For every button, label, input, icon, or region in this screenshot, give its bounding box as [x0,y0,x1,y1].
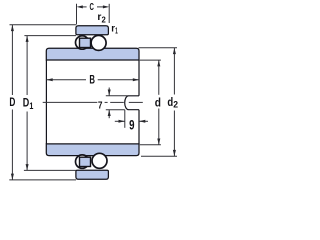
outer ring bottom section [76,170,109,179]
svg-text:7: 7 [98,100,103,112]
svg-text:d: d [155,96,161,110]
dimension B [47,79,140,81]
svg-text:C: C [90,1,95,13]
dimension d [140,60,161,145]
ball bottom-left [76,155,89,168]
svg-text:D: D [23,95,30,109]
slot in end face [125,96,139,110]
center axis line [43,101,143,103]
ball top-right [91,35,106,50]
dimension C [77,4,110,25]
dimension 7 (slot) [106,88,129,119]
svg-text:B: B [89,75,95,87]
ball top-left [76,36,89,49]
outer ring top section [76,26,109,35]
dimension D [9,25,76,180]
cage top [80,38,91,47]
svg-text:1: 1 [115,26,118,36]
svg-text:1: 1 [29,101,33,111]
cage bottom [80,157,91,166]
ball bottom-right [92,153,107,168]
svg-text:D: D [9,95,15,109]
dimension D1 [24,36,76,171]
dimension 9 (slot depth) [115,110,148,128]
svg-text:2: 2 [173,99,178,109]
right end face line upper [138,60,140,96]
svg-text:9: 9 [129,117,135,133]
svg-text:2: 2 [102,15,107,25]
inner ring bottom section [46,144,139,156]
right end face line lower [138,110,140,144]
left end face line [45,60,47,144]
dimension d2 [139,48,178,156]
inner ring top section [46,48,139,60]
